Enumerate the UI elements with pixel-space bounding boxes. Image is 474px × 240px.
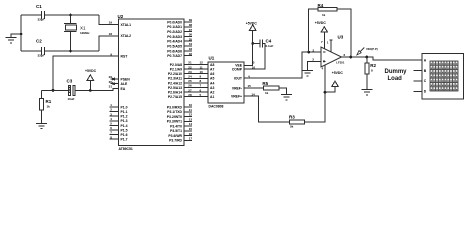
svg-text:P3.2/INT0: P3.2/INT0	[167, 115, 182, 119]
svg-text:Load: Load	[388, 76, 403, 82]
pin P1.4 stub	[110, 124, 119, 126]
svg-text:10: 10	[189, 103, 193, 107]
wire C2 row left	[21, 50, 41, 52]
MCU pin numbers left	[109, 21, 113, 89]
svg-text:P0.2/AD2: P0.2/AD2	[167, 30, 182, 34]
svg-text:P3.7/RD: P3.7/RD	[169, 139, 182, 143]
wire P2.4 to DAC A4	[184, 82, 208, 84]
svg-text:39: 39	[189, 18, 193, 22]
svg-text:IOUT: IOUT	[234, 77, 243, 81]
labels right section	[246, 3, 377, 129]
node X1 bottom	[69, 50, 72, 53]
svg-text:19: 19	[109, 21, 113, 25]
node X1 top	[69, 14, 72, 17]
power +5VDC arrow (op-amp V-)	[332, 81, 338, 86]
wire R1 drop	[40, 90, 42, 98]
pin B stub	[414, 70, 423, 72]
wire ground branch	[11, 34, 21, 38]
svg-text:33pF: 33pF	[38, 18, 45, 22]
svg-text:C2: C2	[36, 39, 42, 44]
node reset junction	[52, 89, 55, 92]
pin P3.7/RD stub	[184, 139, 192, 141]
wire reset row	[41, 89, 68, 91]
pin P3.6/WR stub	[184, 135, 192, 137]
svg-text:15: 15	[189, 127, 193, 131]
svg-text:32: 32	[189, 52, 193, 56]
svg-text:P0.5/AD5: P0.5/AD5	[167, 44, 182, 48]
svg-text:14: 14	[189, 122, 193, 126]
svg-text:LF351: LF351	[336, 60, 345, 64]
pin P1.3 stub	[110, 120, 119, 122]
svg-text:A2: A2	[210, 91, 214, 95]
node op-amp V- supply junction	[324, 91, 327, 94]
svg-text:29: 29	[109, 75, 113, 79]
node VEE C4 junction	[251, 42, 254, 45]
pin P1.0 stub	[110, 106, 119, 108]
svg-text:11: 11	[200, 65, 204, 69]
svg-text:A1: A1	[210, 95, 214, 99]
pin P0.4/AD4 stub	[184, 40, 192, 42]
capacitor C3	[68, 86, 75, 96]
probe V3O(P-P)	[357, 47, 378, 55]
wire C3 to EA	[75, 88, 119, 90]
svg-text:16: 16	[189, 132, 193, 136]
dummy load title	[385, 69, 408, 82]
svg-text:17: 17	[189, 137, 193, 141]
wire IOUT to op-amp	[244, 52, 321, 78]
svg-text:38: 38	[189, 23, 193, 27]
wire C4 left	[253, 42, 260, 44]
svg-text:36: 36	[189, 33, 193, 37]
node output R2 junction	[366, 56, 369, 59]
svg-text:5k: 5k	[290, 125, 294, 129]
wire R5 to ground	[279, 88, 287, 94]
svg-text:28: 28	[188, 93, 192, 97]
node +5V EA junction	[89, 89, 92, 92]
svg-text:P1.6: P1.6	[121, 133, 128, 137]
svg-text:Dummy: Dummy	[385, 69, 408, 75]
pin P0.0/AD0 stub	[184, 21, 192, 23]
svg-text:P2.0/A8: P2.0/A8	[170, 63, 182, 67]
wire R4 left leg	[309, 9, 318, 52]
svg-text:A8: A8	[210, 63, 214, 67]
svg-text:P0.4/AD4: P0.4/AD4	[167, 40, 182, 44]
wire VEE to +5V	[244, 30, 253, 65]
pin P3.1/TXD stub	[184, 111, 192, 113]
wire op-amp output	[342, 57, 423, 60]
pin P1.6 stub	[110, 134, 119, 136]
svg-text:+5VDC: +5VDC	[85, 69, 97, 73]
pin P0.6/AD6 stub	[184, 50, 192, 52]
node rail-ground junction	[20, 33, 23, 36]
capacitor C1	[41, 11, 44, 19]
resistor R3	[289, 120, 304, 124]
svg-text:C4: C4	[266, 39, 272, 44]
resistor R5	[264, 86, 279, 90]
wire left rail	[20, 15, 22, 51]
svg-text:13: 13	[189, 118, 193, 122]
pin P0.5/AD5 stub	[184, 45, 192, 47]
svg-text:P2.3/A11: P2.3/A11	[168, 77, 182, 81]
svg-text:25: 25	[188, 79, 192, 83]
svg-text:VREF-: VREF-	[232, 86, 242, 90]
wire XTAL1	[99, 15, 119, 24]
ground GND1	[6, 38, 17, 43]
pin C stub	[414, 80, 423, 82]
wire R3 to +5V rail	[304, 65, 325, 122]
wire P2.6 to DAC A2	[184, 91, 208, 93]
pin x-mark PSEN	[113, 78, 115, 80]
wire XTAL2	[99, 36, 119, 51]
svg-text:P1.7: P1.7	[121, 138, 128, 142]
svg-text:AT89C51: AT89C51	[119, 147, 133, 151]
wire R4 right leg	[337, 9, 351, 57]
pin 1 stub op-amp	[330, 40, 332, 52]
svg-text:18: 18	[109, 32, 113, 36]
svg-text:12: 12	[200, 61, 204, 65]
svg-text:P2.2/A10: P2.2/A10	[168, 72, 182, 76]
svg-text:35: 35	[189, 37, 193, 41]
crystal X1	[64, 15, 77, 51]
svg-text:+5VDC: +5VDC	[332, 71, 344, 75]
svg-text:21: 21	[188, 61, 192, 65]
svg-text:A7: A7	[210, 68, 214, 72]
capacitor C2	[41, 47, 44, 55]
svg-text:P3.0/RXD: P3.0/RXD	[167, 105, 183, 109]
svg-text:P0.6/AD6: P0.6/AD6	[167, 49, 182, 53]
svg-text:P3.5/T1: P3.5/T1	[170, 129, 182, 133]
svg-text:22: 22	[188, 65, 192, 69]
DAC U1 DAC0808	[208, 56, 244, 109]
P3 stubs	[167, 103, 193, 143]
power +5VDC arrow (op-amp V+)	[321, 27, 327, 32]
svg-text:P0.0/AD0: P0.0/AD0	[167, 20, 182, 24]
svg-text:11: 11	[189, 108, 193, 112]
resistor R1	[39, 98, 43, 110]
svg-text:A3: A3	[210, 86, 214, 90]
pin P0.3/AD3 stub	[184, 35, 192, 37]
ground GND5	[361, 89, 372, 94]
wire P2.7 to DAC A1	[184, 96, 208, 98]
svg-text:DAC0808: DAC0808	[209, 105, 224, 109]
svg-text:31: 31	[109, 85, 113, 89]
capacitor C4	[260, 39, 263, 47]
svg-text:P0.3/AD3: P0.3/AD3	[167, 35, 182, 39]
pin P0.7/AD7 stub	[184, 55, 192, 57]
svg-text:+5VDC: +5VDC	[315, 21, 327, 25]
svg-text:P2.5/A13: P2.5/A13	[168, 86, 182, 90]
wire PSEN stub	[111, 78, 119, 80]
svg-text:16: 16	[252, 65, 256, 69]
wire P2.2 to DAC A6	[184, 73, 208, 75]
svg-text:10uF: 10uF	[68, 97, 75, 101]
svg-text:U2: U2	[118, 14, 124, 19]
wire op-amp pin3 to ground	[308, 61, 322, 70]
svg-text:V3O(P-P): V3O(P-P)	[366, 47, 378, 51]
svg-text:P2.4/A12: P2.4/A12	[168, 81, 182, 85]
power +5VDC arrow (VEE)	[250, 25, 256, 30]
ground GND2	[36, 123, 47, 128]
svg-text:P3.6/WR: P3.6/WR	[168, 134, 182, 138]
pin P1.2 stub	[110, 115, 119, 117]
svg-text:1k: 1k	[265, 91, 269, 95]
node output R4 junction	[349, 56, 352, 59]
pin x-mark ALE	[113, 83, 115, 85]
svg-text:12MHz: 12MHz	[80, 31, 90, 35]
svg-text:10: 10	[200, 70, 204, 74]
svg-text:27: 27	[188, 88, 192, 92]
pin P1.1 stub	[110, 111, 119, 113]
svg-text:U1: U1	[209, 56, 215, 61]
svg-text:COMP: COMP	[232, 68, 243, 72]
resistor R4	[318, 7, 337, 11]
ground GND4	[302, 70, 313, 75]
svg-text:33: 33	[189, 47, 193, 51]
svg-text:P1.3: P1.3	[121, 119, 128, 123]
svg-text:A6: A6	[210, 72, 214, 76]
svg-text:P1.1: P1.1	[121, 110, 128, 114]
P1 stubs and labels	[110, 103, 128, 142]
svg-text:0.1uF: 0.1uF	[266, 44, 274, 48]
svg-text:EA: EA	[121, 87, 126, 91]
resistor R2	[365, 63, 369, 74]
svg-text:P0.1/AD1: P0.1/AD1	[167, 25, 182, 29]
svg-text:P2.6/A14: P2.6/A14	[168, 91, 182, 95]
svg-text:P0.7/AD7: P0.7/AD7	[167, 54, 182, 58]
wire R1 to ground	[40, 110, 42, 123]
pin D stub	[414, 90, 423, 92]
svg-text:P1.5: P1.5	[121, 128, 128, 132]
dummy load box	[414, 54, 464, 100]
wire P2.0 to DAC A8	[184, 64, 208, 66]
svg-text:XTAL1: XTAL1	[121, 23, 132, 27]
pin P3.5/T1 stub	[184, 130, 192, 132]
svg-text:P1.4: P1.4	[121, 124, 128, 128]
svg-text:C3: C3	[67, 78, 73, 83]
MCU left pin stubs	[111, 78, 119, 85]
pin P1.7 stub	[110, 138, 119, 140]
svg-text:23: 23	[188, 70, 192, 74]
svg-text:30: 30	[109, 80, 113, 84]
svg-text:P3.4/T0: P3.4/T0	[170, 124, 182, 128]
svg-text:RST: RST	[121, 55, 129, 59]
pin P0.1/AD1 stub	[184, 26, 192, 28]
heater grid element	[430, 61, 458, 91]
power +5VDC arrow (EA)	[87, 75, 94, 91]
svg-text:R3: R3	[289, 114, 295, 119]
svg-text:P1.2: P1.2	[121, 115, 128, 119]
svg-text:33pF: 33pF	[38, 54, 45, 58]
wire R2 to ground	[366, 74, 368, 89]
P0 stubs	[167, 18, 192, 58]
labels left section	[36, 4, 97, 109]
svg-text:37: 37	[189, 28, 193, 32]
wire VREF+ to R3	[244, 96, 289, 122]
svg-text:14: 14	[251, 93, 255, 97]
svg-text:R5: R5	[262, 81, 268, 86]
svg-text:XTAL2: XTAL2	[121, 34, 132, 38]
wire P2.3 to DAC A5	[184, 77, 208, 79]
wire P2.1 to DAC A7	[184, 68, 208, 70]
svg-text:PSEN: PSEN	[121, 77, 131, 81]
svg-text:1k: 1k	[47, 105, 51, 109]
svg-text:R4: R4	[318, 3, 324, 8]
svg-text:U3: U3	[338, 35, 344, 40]
wire C4 to COMP	[244, 43, 265, 69]
svg-text:P1.0: P1.0	[121, 105, 128, 109]
svg-text:12: 12	[189, 113, 193, 117]
wire P2.5 to DAC A3	[184, 87, 208, 89]
wire +5V branch (pin 4)	[325, 86, 335, 92]
pin P3.4/T0 stub	[184, 125, 192, 127]
pin P3.3/INT1 stub	[184, 120, 192, 122]
ground GND3	[281, 94, 292, 99]
wire C1 row left	[21, 14, 41, 16]
node inverting input junction	[307, 51, 310, 54]
svg-text:A5: A5	[210, 77, 214, 81]
svg-text:15: 15	[248, 84, 252, 88]
svg-text:P3.3/INT1: P3.3/INT1	[167, 120, 182, 124]
svg-text:R1: R1	[46, 99, 52, 104]
svg-text:26: 26	[188, 84, 192, 88]
wire op-amp pin7 to +5V	[323, 32, 325, 49]
svg-text:C1: C1	[36, 4, 42, 9]
svg-text:P3.1/TXD: P3.1/TXD	[167, 110, 182, 114]
svg-text:+5VDC: +5VDC	[246, 22, 258, 26]
svg-text:ALE: ALE	[121, 82, 129, 86]
pin P0.2/AD2 stub	[184, 31, 192, 33]
svg-text:1k: 1k	[322, 13, 326, 17]
svg-text:P2.7/A15: P2.7/A15	[168, 95, 182, 99]
wire C2 row right	[45, 50, 99, 52]
wire R2 top leg	[366, 57, 368, 63]
svg-text:VREF+: VREF+	[231, 95, 242, 99]
op-amp U3 LF351	[321, 35, 345, 68]
microcontroller U2 AT89C51	[118, 14, 185, 151]
pin P3.0/RXD stub	[184, 106, 192, 108]
svg-text:X1: X1	[80, 25, 86, 30]
MCU left pin texts	[121, 23, 132, 91]
svg-text:A4: A4	[210, 81, 214, 85]
P2 bus wires	[168, 61, 208, 99]
pin P3.2/INT0 stub	[184, 116, 192, 118]
pin P1.5 stub	[110, 129, 119, 131]
wire RST	[53, 56, 119, 90]
svg-text:34: 34	[189, 42, 193, 46]
wire C1 row right	[45, 14, 99, 16]
svg-text:P2.1/A9: P2.1/A9	[170, 68, 182, 72]
svg-text:24: 24	[188, 75, 192, 79]
wire VREF- to R5	[244, 87, 264, 89]
svg-text:R2: R2	[370, 63, 376, 68]
wire ALE stub	[111, 83, 119, 85]
